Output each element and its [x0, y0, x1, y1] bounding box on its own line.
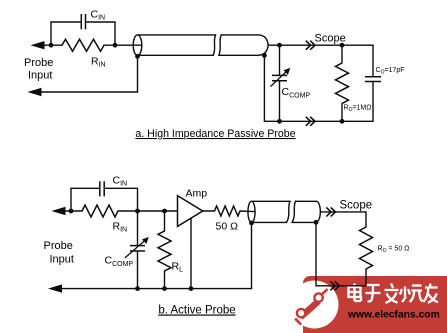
node scope top (a) [340, 43, 345, 48]
top rail to scope (a) [268, 44, 373, 46]
capacitor C_O (a) [365, 77, 381, 82]
shield to scope rail (b) [316, 222, 366, 285]
烧 [400, 286, 422, 303]
node left (a) [49, 43, 54, 48]
node R_L top [162, 209, 167, 214]
resistor R_O (b) [360, 212, 373, 286]
C_IN branch wires (a) [51, 22, 115, 45]
ground rail (b) [56, 223, 252, 289]
svg-text:Probe: Probe [44, 240, 73, 252]
电 [349, 287, 361, 297]
resistor R_O (a) [336, 45, 349, 121]
node C_COMP top (a) [277, 43, 282, 48]
chevron top rail (b) [326, 207, 335, 216]
chevron bottom rail (b) [330, 281, 339, 290]
arrow probe input b [52, 207, 83, 215]
right branch wire (a) [372, 45, 374, 121]
子 [366, 285, 381, 301]
chevron bottom rail (a) [306, 117, 315, 126]
coax cable 2 [248, 201, 321, 222]
node coax2 shield left [249, 221, 254, 226]
resistor R_IN (b) [82, 205, 118, 217]
arrow probe input a [31, 41, 63, 49]
svg-text:www.elecfans.com: www.elecfans.com [347, 310, 440, 321]
capacitor C_IN (a) plates [81, 14, 85, 29]
wire to amp (b) [118, 210, 178, 212]
op-amp U1 triangle [178, 196, 203, 227]
node mid (b) [135, 209, 140, 214]
shield to bottom rail (a) [264, 55, 373, 121]
resistor R_L [158, 211, 171, 289]
arrow ground (b) [48, 284, 62, 292]
wire amp out [203, 210, 215, 212]
node C_COMP bottom (a) [277, 119, 282, 124]
node coax1 shield left [135, 54, 140, 59]
watermark logo circle [291, 281, 339, 329]
发 [385, 284, 399, 303]
svg-text:Input: Input [28, 70, 52, 82]
watermark chinese text 电子发烧友 (stroke approximation) [349, 284, 439, 303]
watermark red badge [291, 276, 447, 333]
svg-text:a. High Impedance Passive Prob: a. High Impedance Passive Probe [135, 128, 295, 140]
svg-text:Amp: Amp [186, 188, 208, 200]
node R_L bottom [162, 286, 167, 291]
wire R_IN to coax [104, 44, 141, 46]
node coax1 shield right [262, 53, 267, 58]
svg-text:50 Ω: 50 Ω [216, 221, 239, 233]
resistor R_IN (a) [62, 39, 104, 51]
arrow ground return a [28, 88, 42, 96]
capacitor C_COMP (a) [271, 45, 291, 121]
top rail to scope (b) [320, 211, 366, 213]
svg-text:Probe: Probe [24, 57, 53, 69]
node scope bottom (a) [340, 119, 345, 124]
ground return wire (a) [33, 56, 138, 92]
chevron top rail (a) [306, 41, 315, 50]
友 [423, 284, 438, 303]
coax cable 1 [133, 35, 268, 56]
svg-text:Input: Input [50, 254, 74, 266]
C_IN branch wires (b) [71, 188, 138, 211]
node amp ground [189, 286, 194, 291]
svg-text:b. Active Probe: b. Active Probe [158, 305, 235, 317]
capacitor C_IN (b) plates [100, 181, 104, 196]
node left (b) [69, 209, 74, 214]
svg-text:Scope: Scope [315, 33, 346, 45]
amp ground wire [190, 218, 192, 288]
wire to coax2 [240, 210, 254, 213]
svg-text:Scope: Scope [340, 200, 373, 212]
node right (a) [113, 43, 118, 48]
node coax2 shield right [314, 220, 319, 225]
capacitor C_COMP (b) [125, 211, 149, 289]
resistor 50 ohm [215, 206, 241, 216]
node C_COMP bottom (b) [135, 286, 140, 291]
